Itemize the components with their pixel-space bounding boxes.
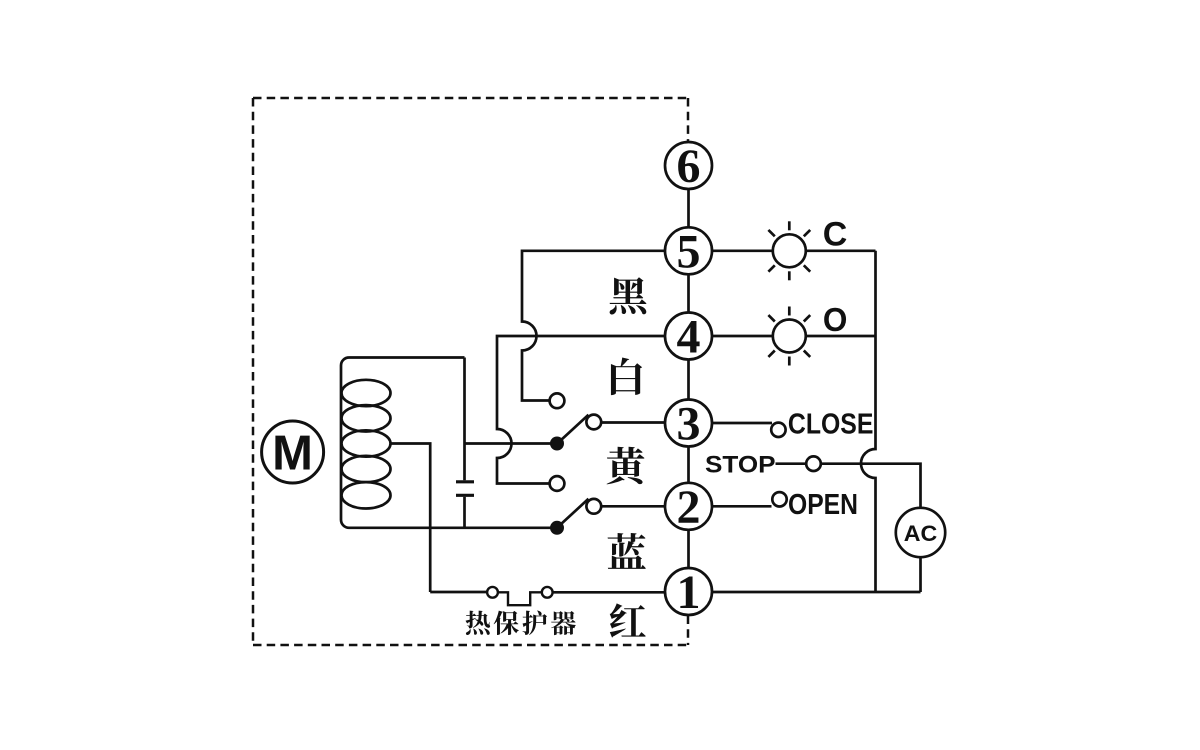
wire AC source to bottom wire [919, 557, 922, 592]
svg-text:1: 1 [677, 566, 701, 619]
thermal protector label char 3 [522, 610, 547, 635]
wire terminal bus 2-1 [687, 530, 690, 568]
motor winding loop 1 [342, 380, 391, 406]
capacitor C1 top plate [456, 480, 474, 483]
switch SW3 arm [557, 415, 589, 444]
wire switch SW3 to terminal 3 [601, 421, 665, 424]
wire right bus with hop over STOP wire, down to bottom wire [861, 251, 876, 592]
enclosure dashed border right edge below terminal 1 [687, 616, 690, 646]
svg-text:2: 2 [677, 481, 701, 534]
enclosure dashed border right edge above terminal 6 [687, 98, 690, 141]
wire label: black (hei) [610, 277, 647, 314]
wire label: blue (lan) [608, 533, 646, 569]
svg-text:M: M [272, 427, 313, 481]
indicator lamp O [768, 307, 810, 366]
enclosure dashed border bottom edge [253, 644, 688, 647]
thermal protector label char 4 [551, 611, 576, 635]
switch SW2 upper contact (from terminal 4 wire) [550, 476, 565, 491]
STOP button contact [806, 456, 821, 471]
svg-text:5: 5 [677, 225, 701, 278]
wire terminal 2 to OPEN button [712, 505, 772, 508]
switch SW2 arm [557, 499, 589, 528]
wire terminal 5 to left with hop over terminal-4 wire, to switch contact [522, 251, 665, 401]
wire lamp C to right bus [806, 249, 876, 252]
wire red: center tap corner to thermal protector [430, 591, 487, 594]
switch SW3 upper contact (from terminal 5 wire) [550, 393, 565, 408]
wire terminal bus 6-5 [687, 189, 690, 227]
svg-text:OPEN: OPEN [788, 489, 858, 521]
switch SW2 contact to terminal 2 [586, 499, 601, 514]
motor winding loop 5 [342, 482, 391, 508]
wire STOP button to AC source [821, 464, 921, 508]
wire capacitor bottom to blue wire [463, 497, 466, 528]
thermal protector right contact circle [542, 587, 553, 598]
svg-text:6: 6 [677, 140, 701, 193]
OPEN button contact [772, 492, 786, 506]
svg-text:C: C [823, 216, 848, 254]
thermal protector element (dip) [498, 592, 542, 605]
wire bottom: terminal 1 to AC source [712, 591, 921, 594]
svg-text:STOP: STOP [705, 451, 776, 478]
thermal protector label char 2 [494, 611, 519, 635]
svg-text:AC: AC [904, 521, 938, 546]
terminal 2 [665, 483, 712, 530]
wire switch SW2 to terminal 2 [601, 505, 665, 508]
wire coil top node down to capacitor [463, 358, 466, 481]
wire label: white (bai) [611, 358, 642, 396]
wire terminal bus 4-3 [687, 360, 690, 400]
capacitor C1 bottom plate [456, 494, 474, 497]
thermal protector left contact circle [487, 587, 498, 598]
switch SW3 contact to terminal 3 [586, 415, 601, 430]
terminal 6 [665, 142, 712, 189]
motor M circle [262, 421, 324, 483]
CLOSE button contact [771, 423, 785, 437]
wire STOP label to STOP button [776, 462, 806, 465]
wire label: red (hong) [610, 603, 646, 637]
terminal 5 [665, 227, 712, 274]
enclosure dashed border top edge [253, 97, 688, 100]
wire red: thermal protector to terminal 1 [553, 591, 665, 594]
wire terminal bus 3-2 [687, 447, 690, 483]
motor winding loop 4 [342, 456, 391, 482]
wire terminal 5 to lamp C [712, 249, 773, 252]
svg-text:3: 3 [677, 398, 701, 451]
AC source circle [896, 508, 945, 557]
switch SW2 common junction (blue wire) [550, 521, 564, 535]
thermal protector label char 1 [466, 611, 491, 635]
wire yellow: capacitor node to SW3 common [465, 442, 553, 445]
terminal 3 [665, 400, 712, 447]
wire terminal 4 to lamp O [712, 335, 773, 338]
switch SW3 common junction (yellow wire) [550, 437, 564, 451]
motor winding coil outline with top and bottom lead wires [341, 358, 557, 528]
terminal 1 [665, 568, 712, 615]
wire label: yellow (huang) [607, 447, 645, 485]
wire terminal 3 to CLOSE button [712, 422, 772, 425]
motor winding loop 3 [342, 430, 391, 456]
svg-text:4: 4 [677, 311, 701, 364]
wire lamp O to right bus [806, 335, 876, 338]
wire terminal bus 5-4 [687, 274, 690, 312]
svg-text:O: O [823, 301, 848, 338]
terminal 4 [665, 313, 712, 360]
motor winding loop 2 [342, 405, 391, 431]
indicator lamp C [768, 221, 810, 280]
enclosure dashed border left edge [252, 98, 255, 645]
svg-text:CLOSE: CLOSE [788, 409, 874, 441]
wire terminal 4 to left with hop over yellow wire, to switch contact [497, 336, 665, 484]
wire coil center tap down to red wire [391, 444, 431, 593]
